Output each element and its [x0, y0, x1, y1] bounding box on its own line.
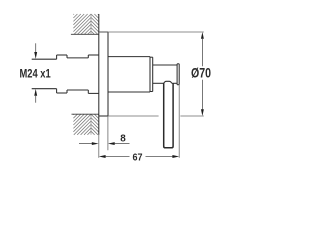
svg-text:M24 x1: M24 x1 — [20, 66, 51, 80]
svg-text:Ø70: Ø70 — [191, 66, 211, 81]
svg-text:8: 8 — [120, 133, 126, 144]
svg-text:67: 67 — [133, 152, 143, 163]
